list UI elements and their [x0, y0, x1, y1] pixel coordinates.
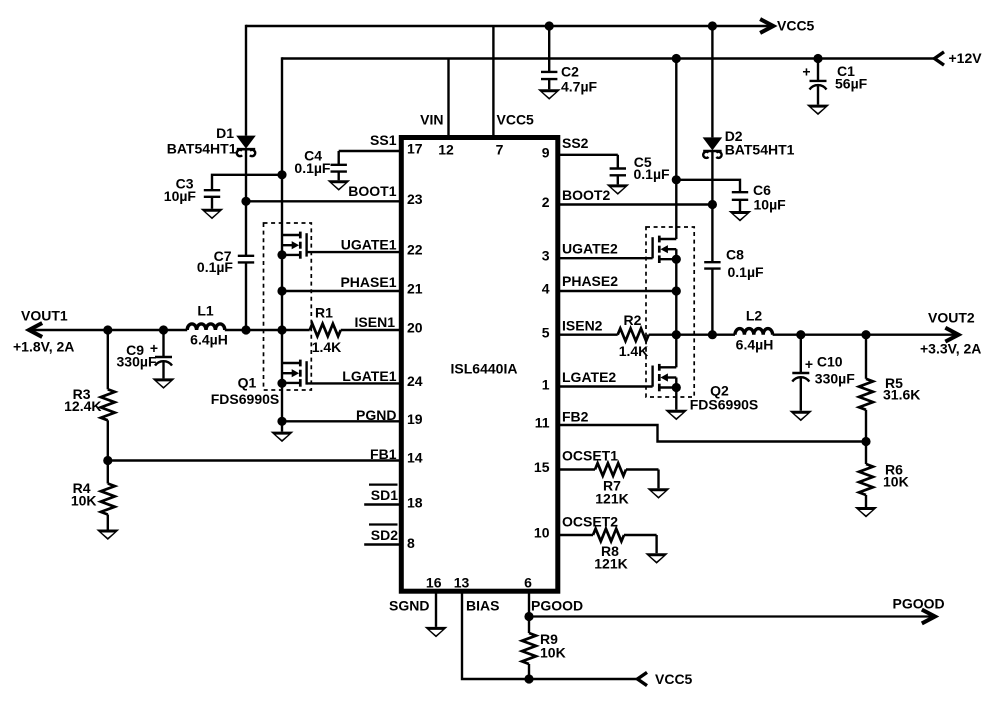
label C8 value: [726, 247, 764, 281]
wire Q2 source to phase: [675, 259, 677, 335]
svg-text:OCSET1: OCSET1: [562, 448, 618, 464]
node C7 bottom junction: [241, 325, 250, 334]
ground C1: [807, 105, 830, 116]
svg-text:+12V: +12V: [949, 50, 983, 66]
svg-text:FB2: FB2: [562, 409, 589, 425]
pin number 17: [407, 141, 423, 157]
outline Q2 package: [646, 227, 694, 397]
ground C5: [606, 184, 629, 195]
wire to power ground: [281, 421, 283, 431]
node FB2 junction: [861, 437, 870, 446]
node C8 bottom junction: [708, 330, 717, 339]
wire BOOT2: [558, 203, 713, 205]
net VCC5 top arrow: [762, 18, 815, 34]
pin label SS1: [370, 132, 397, 148]
net VCC5 bottom arrow: [638, 671, 693, 687]
node PHASE1 junction: [277, 286, 286, 295]
node C6 junction: [672, 175, 681, 184]
wire OCSET2: [558, 534, 593, 536]
pin number 1: [542, 377, 550, 393]
wire PGOOD net: [529, 615, 934, 617]
wire ISEN2: [558, 334, 618, 336]
svg-text:56µF: 56µF: [835, 76, 868, 92]
diode D2: [703, 137, 723, 158]
wire L1 to R1: [225, 329, 310, 331]
svg-text:121K: 121K: [594, 556, 627, 572]
node R9 bottom junction: [524, 674, 533, 683]
pin label UGATE1: [341, 237, 397, 253]
svg-text:R1: R1: [315, 305, 333, 321]
svg-text:6: 6: [524, 575, 532, 591]
svg-text:PGOOD: PGOOD: [531, 598, 583, 614]
resistor R8: [593, 529, 657, 554]
pin label PHASE1: [340, 274, 396, 290]
transistor Q2 upper FET: [558, 236, 677, 263]
pin number 9: [542, 144, 550, 160]
wire Q2 source to ground: [675, 388, 677, 410]
svg-text:121K: 121K: [595, 491, 628, 507]
pin label FB2: [562, 409, 589, 425]
label C7 value: [197, 248, 234, 275]
inductor L2: [735, 329, 773, 335]
label C9 value: [117, 342, 157, 370]
svg-text:22: 22: [407, 242, 423, 258]
svg-text:SD1: SD1: [371, 487, 398, 503]
svg-text:VOUT1: VOUT1: [21, 308, 68, 324]
svg-text:19: 19: [407, 411, 423, 427]
resistor R6: [859, 442, 873, 508]
node PHASE2 junction: [672, 286, 681, 295]
capacitor C9: [155, 330, 172, 378]
svg-text:OCSET2: OCSET2: [562, 514, 618, 530]
svg-text:UGATE2: UGATE2: [562, 241, 618, 257]
transistor Q1 lower FET: [282, 360, 401, 387]
svg-text:10µF: 10µF: [754, 197, 787, 213]
pin label BIAS: [466, 598, 499, 614]
wire D2 cathode to BOOT2: [711, 151, 713, 204]
wire VIN pin 12: [447, 59, 449, 138]
svg-text:18: 18: [407, 495, 423, 511]
capacitor C6: [732, 192, 748, 211]
pin number 2: [542, 194, 550, 210]
wire BIAS pin 13: [462, 591, 638, 679]
pin label OCSET2: [562, 514, 618, 530]
svg-text:9: 9: [542, 144, 550, 160]
label R3: [64, 386, 101, 414]
svg-text:0.1µF: 0.1µF: [197, 259, 234, 275]
svg-text:FB1: FB1: [370, 446, 397, 462]
svg-text:L1: L1: [197, 303, 214, 319]
label C1 plus: [802, 64, 810, 80]
svg-text:0.1µF: 0.1µF: [634, 166, 671, 182]
svg-text:330µF: 330µF: [117, 354, 157, 370]
svg-text:FDS6990S: FDS6990S: [690, 397, 758, 413]
svg-text:+1.8V, 2A: +1.8V, 2A: [13, 339, 74, 355]
svg-text:VOUT2: VOUT2: [928, 310, 975, 326]
capacitor C5: [610, 155, 626, 185]
svg-text:VIN: VIN: [420, 112, 443, 128]
svg-text:4.7µF: 4.7µF: [561, 79, 598, 95]
svg-text:16: 16: [426, 575, 442, 591]
pin label SS2: [562, 135, 589, 151]
svg-text:330µF: 330µF: [815, 371, 855, 387]
transistor Q1 upper FET: [282, 232, 401, 259]
resistor R2: [618, 328, 649, 341]
wire FB1: [108, 459, 402, 461]
wire D1 cathode to BOOT1: [245, 150, 247, 202]
node right bus rail junction: [672, 54, 681, 63]
wire SGND pin 16: [435, 591, 437, 627]
capacitor C10: [792, 335, 809, 411]
svg-text:14: 14: [407, 450, 423, 466]
svg-text:11: 11: [535, 415, 550, 431]
svg-text:1.4K: 1.4K: [312, 339, 342, 355]
wire C6 tap: [676, 180, 740, 192]
pin label OCSET1: [562, 448, 618, 464]
svg-text:13: 13: [454, 575, 470, 591]
pin number 5: [542, 325, 550, 341]
wire VOUT1: [29, 329, 187, 331]
pin label LGATE2: [562, 369, 616, 385]
svg-text:BOOT1: BOOT1: [348, 183, 396, 199]
pin number 21: [407, 281, 423, 297]
ground R4: [96, 530, 119, 541]
svg-text:VCC5: VCC5: [777, 18, 815, 34]
svg-text:LGATE2: LGATE2: [562, 369, 616, 385]
node C9 junction: [159, 325, 168, 334]
pin number 22: [407, 242, 423, 258]
label D1: [167, 125, 237, 157]
svg-text:PHASE2: PHASE2: [562, 273, 618, 289]
net VOUT2 arrow: [920, 310, 981, 357]
ground C4: [327, 180, 350, 191]
label C5 value: [634, 154, 671, 182]
label L2: [736, 308, 774, 353]
svg-text:2: 2: [542, 194, 550, 210]
node PGOOD junction: [524, 612, 533, 621]
label R1: [312, 305, 342, 356]
net PGOOD arrow: [893, 596, 945, 623]
pin label SGND: [389, 598, 429, 614]
svg-text:C2: C2: [561, 64, 579, 80]
svg-text:0.1µF: 0.1µF: [294, 160, 331, 176]
wire +12V bus right: [675, 57, 677, 239]
ground C6: [729, 211, 752, 222]
label C10 plus: [805, 356, 813, 372]
pin number 18: [407, 495, 423, 511]
pin number 24: [407, 373, 423, 389]
wire D1 anode: [245, 25, 247, 136]
wire L2 to VOUT2: [773, 334, 958, 336]
wire Q1 bus lower: [281, 330, 283, 421]
svg-text:10: 10: [534, 525, 550, 541]
node PGND junction: [277, 417, 286, 426]
capacitor C3: [204, 190, 220, 209]
pin number 11: [535, 415, 550, 431]
svg-text:20: 20: [407, 320, 423, 336]
net VOUT1 arrow: [13, 308, 74, 355]
ground C10: [789, 411, 812, 422]
label R8: [594, 543, 627, 572]
net +12V arrow: [935, 50, 983, 66]
pin label ISEN2: [562, 318, 603, 334]
svg-text:+3.3V, 2A: +3.3V, 2A: [920, 341, 981, 357]
svg-text:4: 4: [542, 281, 550, 297]
ground Q1 source: [271, 432, 294, 443]
label C4 value: [294, 148, 331, 177]
node C3 junction: [277, 170, 286, 179]
pin label FB1: [370, 446, 397, 462]
label C10 value: [815, 354, 855, 387]
ground Q2 source: [665, 410, 688, 421]
pin number 12: [438, 142, 454, 158]
label R4: [71, 480, 97, 509]
pin label PHASE2: [562, 273, 618, 289]
svg-text:10K: 10K: [883, 474, 909, 490]
ground C3: [201, 209, 224, 220]
svg-text:SS2: SS2: [562, 135, 589, 151]
svg-text:PHASE1: PHASE1: [340, 274, 396, 290]
wire BOOT1: [246, 200, 401, 202]
svg-text:ISEN2: ISEN2: [562, 318, 603, 334]
pin number 20: [407, 320, 423, 336]
pin number 8: [407, 535, 415, 551]
svg-text:7: 7: [496, 142, 504, 158]
wire ISEN1: [341, 329, 402, 331]
svg-text:6.4µH: 6.4µH: [736, 337, 774, 353]
svg-text:SD2: SD2: [371, 527, 398, 543]
pin label BOOT2: [562, 187, 610, 203]
resistor R1: [310, 324, 341, 337]
svg-text:BOOT2: BOOT2: [562, 187, 610, 203]
svg-text:PGOOD: PGOOD: [893, 596, 945, 612]
node R5 junction: [861, 330, 870, 339]
pin label PGOOD: [531, 598, 583, 614]
pin number 10: [534, 525, 550, 541]
node FB1 junction: [103, 456, 112, 465]
node D2 rail junction: [708, 21, 717, 30]
label R9: [540, 631, 566, 661]
label D2: [725, 128, 795, 158]
resistor R3: [101, 330, 115, 461]
pin label ISEN1: [355, 314, 396, 330]
svg-text:6.4µH: 6.4µH: [190, 332, 228, 348]
svg-text:BIAS: BIAS: [466, 598, 499, 614]
label C9 plus: [150, 340, 158, 356]
resistor R5: [859, 335, 873, 442]
label L1: [190, 303, 228, 348]
node BOOT1 junction: [241, 197, 250, 206]
node BOOT2 junction: [708, 200, 717, 209]
svg-text:8: 8: [407, 535, 415, 551]
svg-text:PGND: PGND: [356, 407, 396, 423]
capacitor C4: [331, 151, 347, 180]
svg-text:BAT54HT1: BAT54HT1: [167, 141, 237, 157]
svg-text:C8: C8: [726, 247, 744, 263]
node C2 junction: [545, 21, 554, 30]
pin number 6: [524, 575, 532, 591]
svg-text:15: 15: [534, 459, 550, 475]
pin label VIN: [420, 112, 443, 128]
node Q1 lower source: [277, 379, 286, 388]
capacitor C8: [704, 205, 720, 335]
pin number 15: [534, 459, 550, 475]
node Q2 lower source: [672, 383, 681, 392]
svg-text:24: 24: [407, 373, 423, 389]
wire PHASE2: [558, 290, 677, 292]
wire SS1: [339, 150, 402, 152]
svg-text:UGATE1: UGATE1: [341, 237, 397, 253]
svg-text:21: 21: [407, 281, 423, 297]
resistor R7: [595, 463, 659, 488]
ground C2: [538, 89, 561, 100]
pin number 19: [407, 411, 423, 427]
svg-text:LGATE1: LGATE1: [342, 368, 396, 384]
node Q1 upper source: [277, 250, 286, 259]
pin number 3: [542, 248, 550, 264]
svg-text:0.1µF: 0.1µF: [728, 264, 765, 280]
svg-text:12: 12: [438, 142, 454, 158]
IC U1 ISL6440IA body: [401, 138, 558, 592]
ground R8: [645, 553, 668, 564]
wire Q2 bus lower: [675, 335, 677, 368]
capacitor C7: [238, 201, 254, 330]
svg-text:+: +: [805, 356, 813, 372]
wire D2 anode: [711, 26, 713, 137]
ground R6: [855, 507, 878, 518]
svg-text:31.6K: 31.6K: [883, 387, 920, 403]
capacitor C2: [541, 26, 557, 89]
svg-text:ISEN1: ISEN1: [355, 314, 396, 330]
pin SD2: [364, 525, 401, 545]
wire PHASE1: [282, 290, 401, 292]
resistor R9: [522, 617, 536, 680]
svg-text:ISL6440IA: ISL6440IA: [451, 361, 518, 377]
svg-text:R2: R2: [624, 312, 642, 328]
ground R7: [647, 488, 670, 499]
pin number 4: [542, 281, 550, 297]
pin SD1: [364, 485, 401, 505]
outline Q1 package: [264, 223, 312, 390]
pin number 7: [496, 142, 504, 158]
svg-text:D1: D1: [216, 125, 234, 141]
wire SS2: [558, 154, 618, 156]
svg-text:17: 17: [407, 141, 423, 157]
wire OCSET1: [558, 468, 595, 470]
wire VCC5 top rail: [246, 25, 773, 27]
node C10 junction: [796, 330, 805, 339]
svg-text:BAT54HT1: BAT54HT1: [725, 142, 795, 158]
pin number 14: [407, 450, 423, 466]
svg-text:12.4K: 12.4K: [64, 398, 101, 414]
svg-text:3: 3: [542, 248, 550, 264]
svg-text:10K: 10K: [540, 645, 566, 661]
resistor R4: [101, 461, 115, 530]
label Q2: [690, 383, 758, 413]
pin label PGND: [356, 407, 396, 423]
svg-text:SGND: SGND: [389, 598, 429, 614]
inductor L1: [187, 324, 225, 330]
node ISEN2 junction: [672, 330, 681, 339]
ground SGND: [425, 627, 448, 638]
svg-text:C10: C10: [817, 354, 843, 370]
wire PGND: [282, 420, 401, 422]
label R5: [883, 375, 920, 403]
svg-text:23: 23: [407, 191, 423, 207]
wire +12V bus left: [281, 57, 283, 330]
svg-text:5: 5: [542, 325, 550, 341]
pin number 13: [454, 575, 470, 591]
svg-text:10µF: 10µF: [164, 188, 197, 204]
label C2 value: [561, 64, 598, 95]
pin label LGATE1: [342, 368, 396, 384]
node ISEN1 junction: [277, 325, 286, 334]
svg-text:1.4K: 1.4K: [619, 343, 649, 359]
wire R2 to L2: [649, 334, 735, 336]
wire +12V rail: [282, 57, 935, 59]
node Q2 upper source: [672, 255, 681, 264]
pin label UGATE2: [562, 241, 618, 257]
label Q1: [211, 375, 279, 408]
svg-text:10K: 10K: [71, 493, 97, 509]
node R3 top junction: [103, 325, 112, 334]
pin label VCC5: [497, 112, 535, 128]
label R7: [595, 478, 628, 507]
svg-text:L2: L2: [746, 308, 763, 324]
svg-text:VCC5: VCC5: [655, 671, 693, 687]
svg-text:FDS6990S: FDS6990S: [211, 391, 279, 407]
capacitor C1: [810, 59, 827, 105]
pin number 23: [407, 191, 423, 207]
label R6: [883, 462, 909, 490]
svg-text:+: +: [802, 64, 810, 80]
svg-text:1: 1: [542, 377, 550, 393]
label R2: [619, 312, 649, 359]
label C1 value: [835, 63, 868, 92]
ground C9: [152, 378, 175, 389]
wire FB2: [558, 425, 866, 442]
svg-text:Q1: Q1: [238, 375, 257, 391]
label C3 value: [164, 176, 197, 205]
wire PGOOD pin 6: [528, 591, 530, 616]
svg-text:SS1: SS1: [370, 132, 397, 148]
svg-text:VCC5: VCC5: [497, 112, 535, 128]
pin label BOOT1: [348, 183, 396, 199]
pin number 16: [426, 575, 442, 591]
wire VCC5 pin 7: [492, 26, 494, 138]
diode D1: [236, 136, 256, 157]
transistor Q2 lower FET: [558, 364, 677, 391]
label C6 value: [753, 182, 786, 213]
wire C3 tap: [212, 175, 282, 190]
node C1 junction: [813, 54, 822, 63]
